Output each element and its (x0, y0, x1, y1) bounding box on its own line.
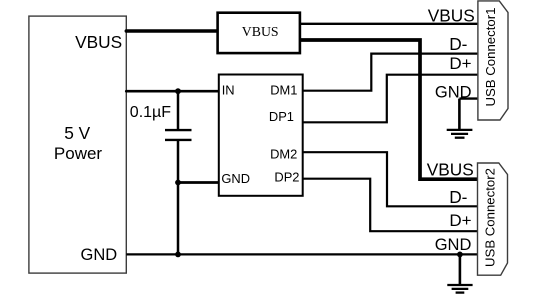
svg-text:0.1µF: 0.1µF (130, 104, 171, 121)
svg-text:GND: GND (435, 236, 472, 254)
wire GND: cap lead to IC GND pin (178, 181, 218, 184)
wire VBUS thick: power box to ferrite box (126, 29, 216, 33)
svg-text:USB Connector1: USB Connector1 (483, 8, 498, 107)
node junction dot: cap lead / GND bus (175, 252, 181, 258)
svg-text:VBUS: VBUS (427, 159, 474, 179)
USB Connector1 outline (478, 1, 508, 120)
svg-text:USB Connector2: USB Connector2 (483, 168, 498, 267)
wire IN: power box to IC (126, 90, 218, 93)
USB power IC box (219, 75, 303, 196)
svg-text:GND: GND (435, 83, 472, 101)
wire DM1 to D- connector1 (303, 54, 477, 91)
wire GND bus: power box to connector2 (126, 253, 477, 255)
node junction dot on GND bus (457, 252, 463, 258)
node junction dot: cap lead / IN wire (175, 88, 181, 94)
wire VBUS1: ferrite box to USB connector1 (thin) (301, 23, 477, 25)
svg-text:GND: GND (81, 246, 118, 264)
wire DM2 to D- connector2 (303, 152, 477, 206)
svg-text:IN: IN (222, 83, 235, 98)
svg-text:VBUS: VBUS (242, 24, 279, 39)
svg-text:GND: GND (221, 171, 250, 186)
wire VBUS2 thick: ferrite box right, down, to USB connector2 (301, 40, 477, 179)
svg-text:D-: D- (449, 34, 467, 54)
wire DP1 to D+ connector1 (303, 75, 477, 123)
capacitor C1 0.1uF (130, 91, 192, 254)
svg-text:D-: D- (449, 187, 467, 207)
svg-text:Power: Power (54, 144, 103, 163)
ground symbol 1 (447, 99, 473, 138)
wire GND1 stub connector1 (459, 97, 477, 99)
USB Connector2 outline (478, 163, 508, 275)
svg-text:DP2: DP2 (274, 169, 299, 184)
node junction dot: cap lead / IC GND wire (175, 180, 181, 186)
svg-text:D+: D+ (449, 211, 471, 230)
wire DP2 to D+ connector2 (303, 179, 477, 232)
svg-text:DM1: DM1 (270, 82, 297, 97)
svg-text:VBUS: VBUS (75, 32, 122, 52)
svg-text:DP1: DP1 (269, 109, 294, 124)
svg-text:5 V: 5 V (64, 123, 90, 143)
svg-text:VBUS: VBUS (428, 5, 475, 25)
ferrite bead box VBUS (218, 13, 300, 53)
svg-text:D+: D+ (449, 54, 471, 73)
5 V Power supply box (29, 16, 126, 273)
ground symbol 2 (447, 254, 472, 292)
svg-text:DM2: DM2 (270, 146, 297, 161)
